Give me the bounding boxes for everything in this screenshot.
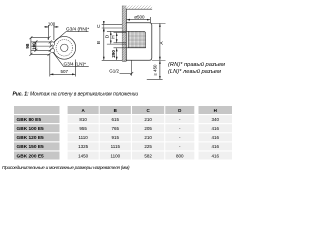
label G3/4 (RN)* with leader xyxy=(54,32,89,42)
svg-text:225: 225 xyxy=(144,144,152,149)
vertical dimension 100 (inner left) xyxy=(34,40,37,51)
svg-text:582: 582 xyxy=(144,153,152,158)
svg-text:205: 205 xyxy=(144,126,152,131)
svg-text:810: 810 xyxy=(79,117,87,122)
table row GBK 200 E5 xyxy=(14,152,232,160)
svg-text:416: 416 xyxy=(211,144,219,149)
dimension B (left) xyxy=(103,28,105,60)
svg-text:G3/4 (RN)*: G3/4 (RN)* xyxy=(66,27,89,32)
tank center circle xyxy=(61,44,68,51)
svg-text:G3/4 (LN)*: G3/4 (LN)* xyxy=(64,62,87,67)
svg-text:98: 98 xyxy=(25,43,30,49)
svg-text:Присоединительные и монтажные: Присоединительные и монтажные размеры на… xyxy=(2,165,130,171)
svg-text:915: 915 xyxy=(112,135,120,140)
floor line xyxy=(147,78,163,80)
svg-text:H: H xyxy=(214,108,217,113)
svg-text:416: 416 xyxy=(211,126,219,131)
svg-text:(LN)* левый разъем: (LN)* левый разъем xyxy=(168,68,221,75)
table row GBK 80 E5 xyxy=(14,115,232,123)
svg-text:765: 765 xyxy=(112,126,120,131)
vertical dimension 98 (outer left) xyxy=(29,36,32,56)
svg-text:≥ 450: ≥ 450 xyxy=(153,64,158,76)
svg-text:GBK 100 E5: GBK 100 E5 xyxy=(17,126,45,132)
left extension lines with ticks xyxy=(31,36,53,56)
wall hatched strip xyxy=(122,6,126,62)
svg-text:G1/2: G1/2 xyxy=(109,68,119,73)
svg-text:1110: 1110 xyxy=(78,135,88,140)
dimension C (upper left) xyxy=(102,21,123,32)
tank inner dashed circle xyxy=(56,40,72,56)
svg-text:955: 955 xyxy=(79,126,87,131)
svg-text:416: 416 xyxy=(211,153,219,158)
svg-text:1115: 1115 xyxy=(111,144,121,149)
dimension 290 xyxy=(114,48,146,60)
dimension H xyxy=(114,32,127,42)
svg-text:GBK 80 E5: GBK 80 E5 xyxy=(17,117,42,123)
label G3/4 (LN)* with leader xyxy=(53,53,89,67)
svg-text:1100: 1100 xyxy=(110,153,120,158)
tank outer circle xyxy=(53,36,76,59)
drain pipe G1/2 leader xyxy=(120,60,134,75)
table row GBK 100 E5 xyxy=(14,124,232,132)
table row GBK 150 E5 xyxy=(14,142,232,150)
ceiling hatched band xyxy=(122,6,152,10)
svg-text:GBK 120 E5: GBK 120 E5 xyxy=(17,135,45,141)
header row xyxy=(14,106,60,114)
dimension A (right) xyxy=(152,23,166,60)
table row GBK 120 E5 xyxy=(14,133,232,141)
svg-text:B: B xyxy=(96,41,102,44)
dimension 100 (top, horizontal) xyxy=(44,25,59,40)
svg-text:615: 615 xyxy=(112,117,120,122)
svg-text:210: 210 xyxy=(144,135,152,140)
svg-text:290: 290 xyxy=(111,50,116,58)
svg-text:100: 100 xyxy=(48,22,56,27)
dimension D xyxy=(107,31,128,44)
svg-text:800: 800 xyxy=(176,153,184,158)
svg-text:D: D xyxy=(104,34,110,38)
svg-text:Рис. 1: Монтаж на стену в верт: Рис. 1: Монтаж на стену в вертикальном п… xyxy=(13,91,139,97)
svg-text:(RN)* правый разъем: (RN)* правый разъем xyxy=(168,61,225,68)
dimension o500 (top) xyxy=(127,17,151,23)
mounting bracket grid xyxy=(128,31,146,47)
svg-text:100: 100 xyxy=(31,42,36,50)
svg-text:C: C xyxy=(96,24,102,28)
svg-text:416: 416 xyxy=(211,135,219,140)
dimension >=450 (bottom right) xyxy=(159,61,161,80)
pipe connection RN (top) xyxy=(50,42,54,46)
circuit-style technical drawing: water heater mounting diagram xyxy=(0,0,246,177)
dimension 507 (bottom) xyxy=(50,54,76,77)
svg-text:H: H xyxy=(111,35,117,39)
svg-text:507: 507 xyxy=(60,69,68,74)
svg-text:1325: 1325 xyxy=(78,144,89,149)
svg-text:GBK 200 E5: GBK 200 E5 xyxy=(17,153,45,159)
svg-text:210: 210 xyxy=(144,117,152,122)
svg-text:1450: 1450 xyxy=(78,153,89,158)
svg-text:GBK 150 E5: GBK 150 E5 xyxy=(17,144,45,150)
pipe connection LN (bottom) xyxy=(50,49,54,53)
tank body (side) xyxy=(126,23,152,61)
svg-text:340: 340 xyxy=(211,117,219,122)
svg-text:ø500: ø500 xyxy=(134,14,145,19)
